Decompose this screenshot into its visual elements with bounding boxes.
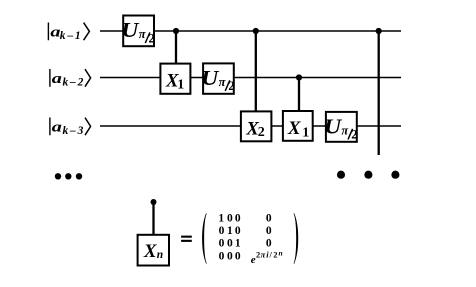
svg-text:U: U — [201, 66, 220, 90]
svg-text:1: 1 — [218, 212, 224, 224]
svg-text:k–3: k–3 — [63, 125, 86, 137]
svg-text:a: a — [52, 118, 62, 135]
svg-text:X: X — [287, 118, 302, 139]
svg-text:2: 2 — [273, 250, 277, 260]
svg-text:1: 1 — [227, 225, 233, 237]
svg-text:U: U — [324, 114, 343, 138]
svg-text:0: 0 — [235, 225, 241, 237]
svg-text:k–2: k–2 — [63, 77, 86, 89]
svg-text:X: X — [143, 241, 158, 262]
svg-text:n: n — [279, 249, 283, 258]
svg-text:0: 0 — [266, 238, 272, 250]
svg-text:0: 0 — [266, 225, 272, 237]
svg-text:k–1: k–1 — [60, 30, 83, 42]
svg-text:0: 0 — [227, 238, 233, 250]
svg-text:0: 0 — [219, 238, 225, 250]
svg-text:1: 1 — [177, 78, 184, 93]
svg-text:0: 0 — [219, 250, 225, 262]
svg-text:0: 0 — [227, 212, 233, 224]
svg-text:π: π — [261, 250, 266, 260]
svg-text:0: 0 — [235, 250, 241, 262]
svg-text:0: 0 — [227, 250, 233, 262]
svg-text:n: n — [157, 249, 163, 261]
svg-text:U: U — [121, 18, 140, 42]
svg-text:0: 0 — [266, 212, 272, 224]
svg-text:1: 1 — [302, 126, 309, 141]
svg-text:π: π — [341, 124, 349, 138]
svg-text:0: 0 — [219, 225, 225, 237]
svg-text:a: a — [52, 69, 62, 86]
svg-text:1: 1 — [235, 238, 241, 250]
svg-text:2: 2 — [258, 125, 265, 140]
svg-text:π: π — [139, 27, 147, 41]
svg-text:0: 0 — [235, 212, 241, 224]
svg-text:π: π — [219, 75, 227, 89]
